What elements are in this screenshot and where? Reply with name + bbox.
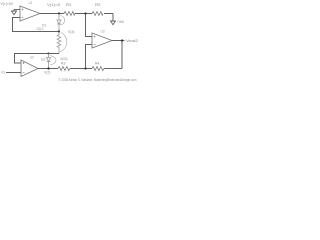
resistor R2 bbox=[92, 12, 103, 16]
wire V1 input bbox=[6, 72, 21, 74]
diode D2 bbox=[47, 54, 51, 69]
wire to top-right ground bbox=[112, 14, 114, 22]
wire A1 inverting feedback bbox=[13, 18, 60, 32]
resistor R4 bbox=[92, 67, 104, 71]
svg-text:V(02): V(02) bbox=[60, 57, 68, 61]
wire lower-left horizontal bbox=[15, 54, 60, 64]
node junction on output rail (to U3 +) bbox=[84, 12, 86, 14]
node junction Vout2 bbox=[121, 39, 123, 41]
svg-text:V(2)=0: V(2)=0 bbox=[36, 27, 43, 31]
op-amp U2 bbox=[21, 60, 38, 77]
node junction on lower-left wire (D2 top) bbox=[48, 53, 50, 55]
resistor R1 bbox=[64, 12, 75, 16]
node junction at V(2) feedback bbox=[58, 30, 60, 32]
current arrow arc center bbox=[60, 33, 67, 53]
wire U3 + input from divider bbox=[86, 14, 93, 37]
wire U3 output bbox=[112, 40, 125, 42]
svg-text:U1: U1 bbox=[29, 1, 33, 5]
op-amp U3 bbox=[92, 33, 112, 48]
op-amp U1 bbox=[20, 6, 40, 21]
svg-text:D2: D2 bbox=[41, 58, 45, 62]
svg-text:V1: V1 bbox=[1, 70, 5, 74]
svg-text:V(3): V(3) bbox=[68, 30, 74, 34]
resistor R3 bbox=[58, 67, 70, 71]
svg-text:V(+)=0V: V(+)=0V bbox=[1, 1, 14, 6]
svg-text:R4: R4 bbox=[95, 62, 99, 66]
svg-text:R3: R3 bbox=[61, 62, 65, 66]
ground top-right bbox=[111, 21, 116, 25]
current arrow arc at D1 bbox=[61, 16, 65, 26]
wire U2 output rail bbox=[38, 41, 122, 69]
svg-text:D1: D1 bbox=[42, 24, 46, 28]
diode D1 bbox=[57, 14, 61, 32]
svg-text:© 2008 Adrian S. Nastase, Mast: © 2008 Adrian S. Nastase, MasteringElect… bbox=[59, 78, 137, 82]
svg-text:V(2): V(2) bbox=[44, 70, 50, 74]
svg-text:R2: R2 bbox=[95, 3, 101, 7]
current arrow arc at D2 bbox=[50, 56, 56, 66]
svg-text:R1: R1 bbox=[66, 3, 72, 7]
ground at A1 + input bbox=[12, 10, 21, 15]
node junction V(2) bottom bbox=[47, 67, 49, 69]
node junction on output rail (D1 top) bbox=[58, 12, 60, 14]
resistor (vertical) below node 2 bbox=[57, 32, 61, 54]
svg-text:GND: GND bbox=[118, 20, 125, 24]
wire U3 - input from feedback bbox=[86, 45, 93, 69]
svg-text:U3: U3 bbox=[101, 30, 105, 34]
svg-text:U2: U2 bbox=[30, 56, 34, 60]
wire A1 output rail bbox=[40, 13, 113, 15]
svg-text:V(1)=0: V(1)=0 bbox=[47, 2, 61, 7]
node junction to U3 - input bbox=[84, 67, 86, 69]
svg-text:Vout2: Vout2 bbox=[126, 39, 138, 43]
